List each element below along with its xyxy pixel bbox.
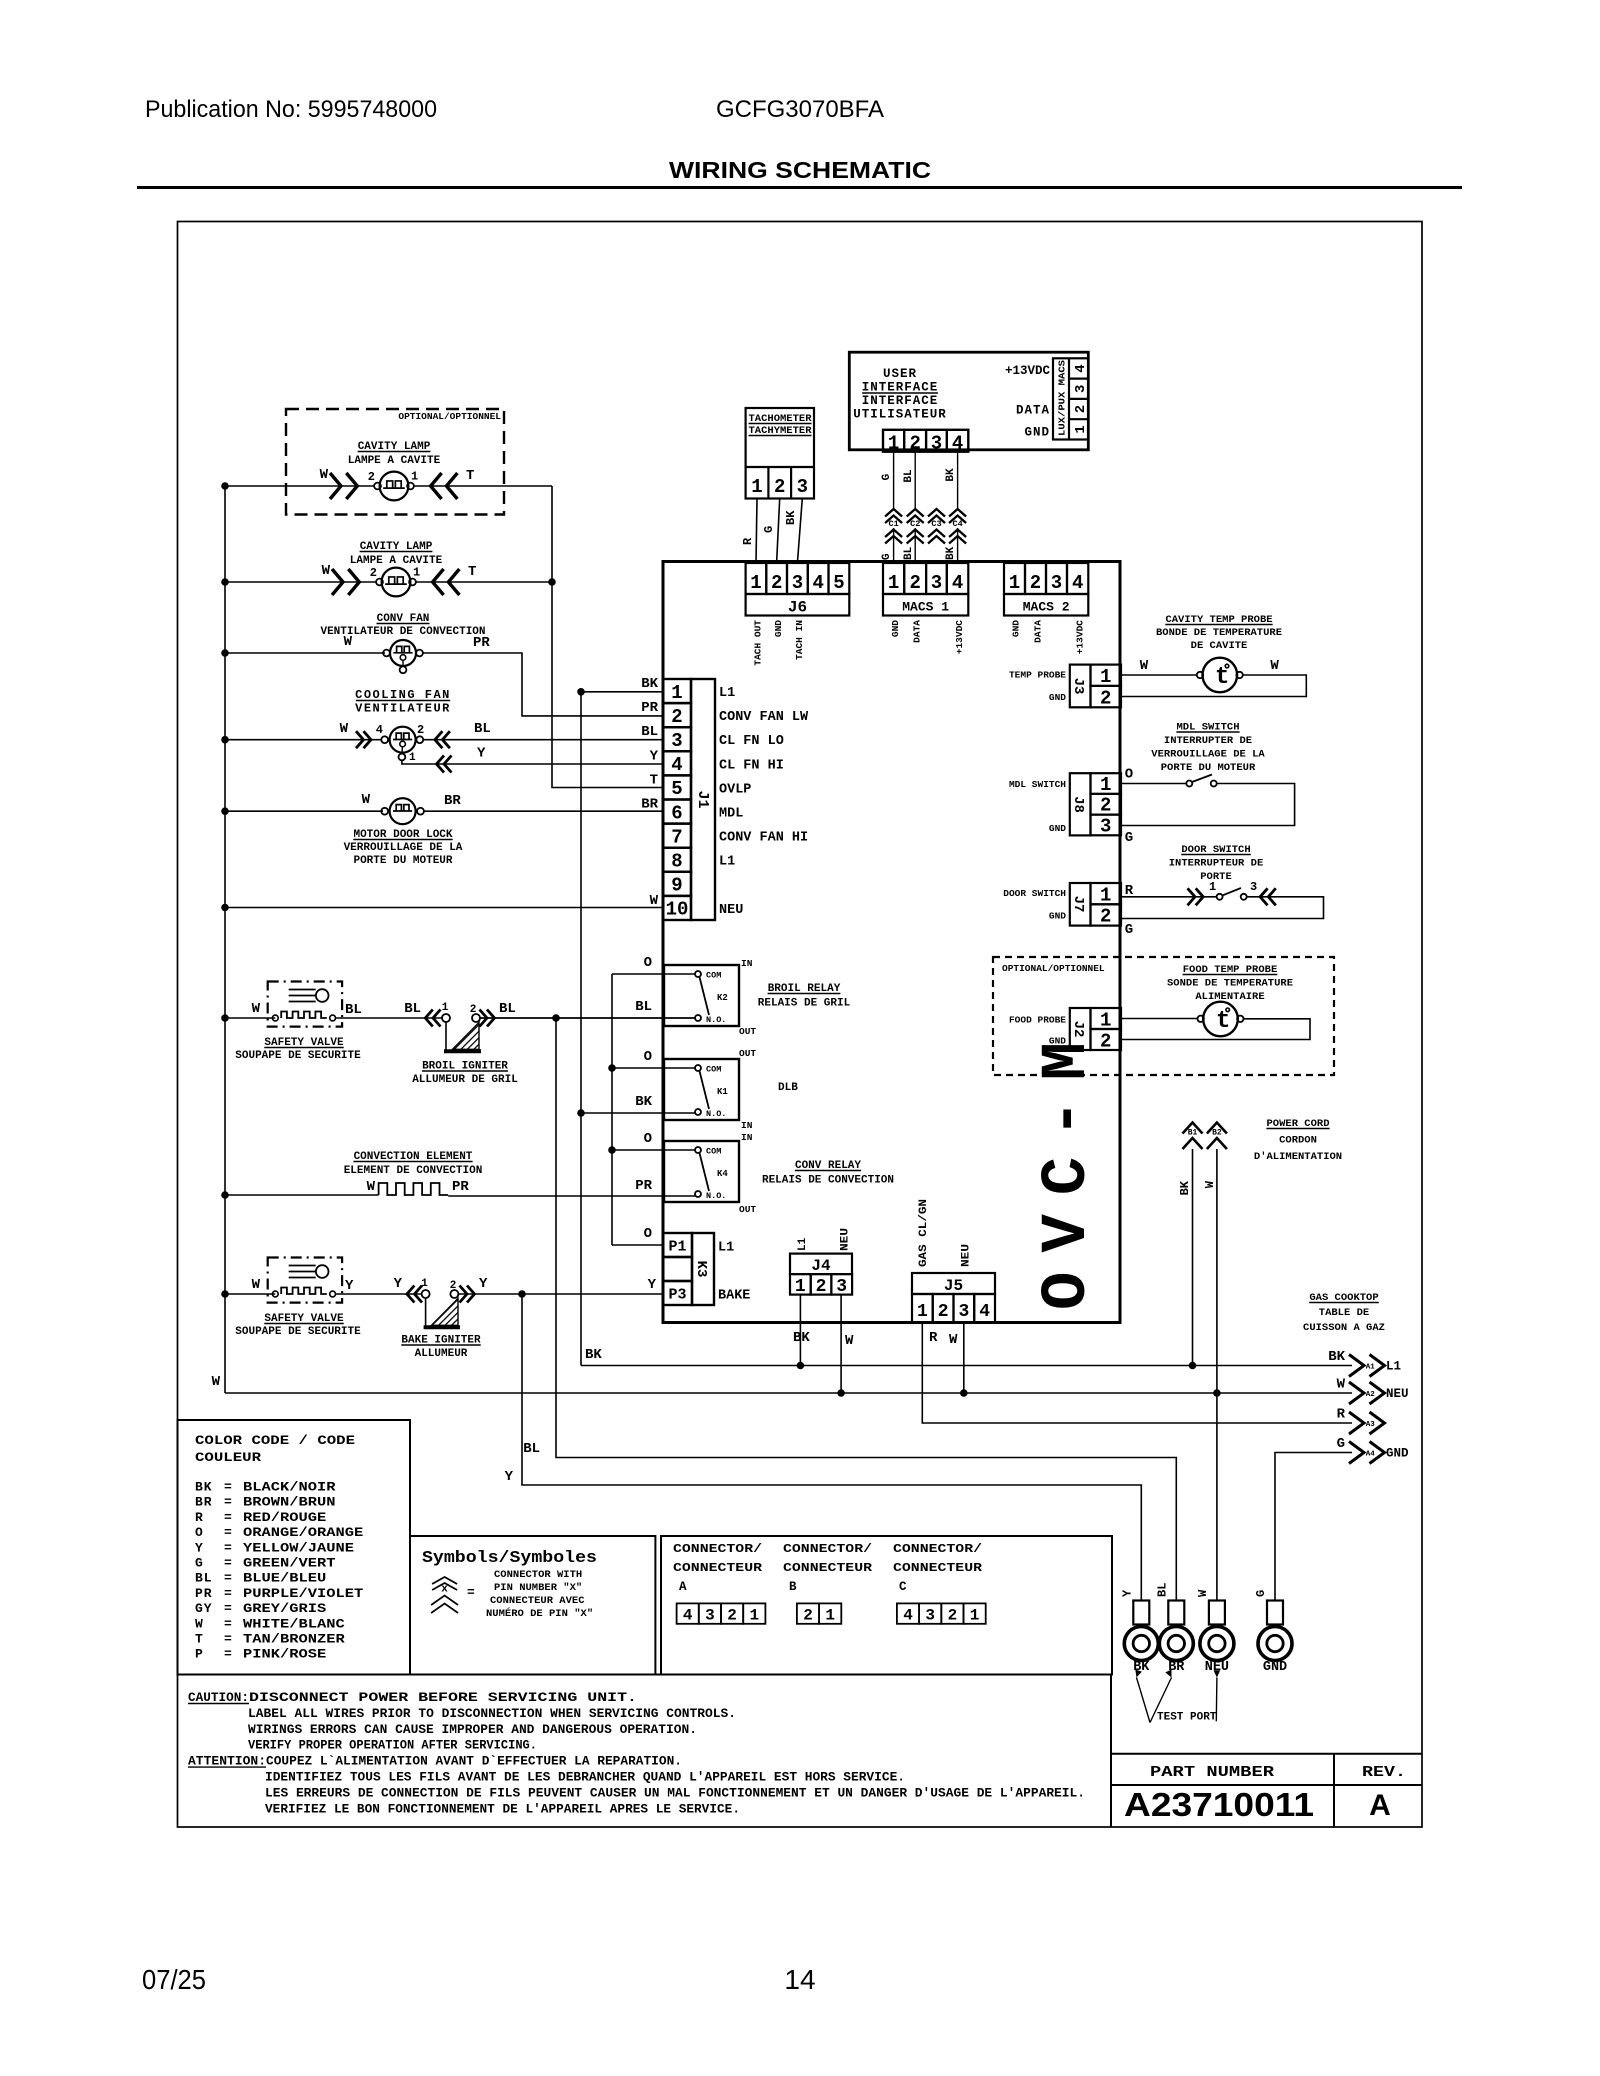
MACS 2 pin 4 — [1067, 563, 1088, 594]
wire Y drop from bake circuit to BK ring terminal — [522, 1294, 1141, 1601]
svg-text:N.O.: N.O. — [706, 1015, 726, 1025]
svg-text:DATA: DATA — [912, 620, 923, 643]
svg-text:BR: BR — [444, 793, 461, 809]
J5 pin 1 — [912, 1294, 933, 1323]
cooling fan motor symbol — [390, 727, 416, 753]
svg-text:INTERRUPTEUR DE: INTERRUPTEUR DE — [1169, 858, 1264, 870]
svg-text:PORTE DU MOTEUR: PORTE DU MOTEUR — [353, 855, 452, 867]
svg-text:3: 3 — [1250, 880, 1257, 894]
broil igniter chevrons right — [480, 1010, 488, 1027]
svg-text:INTERRUPTER DE: INTERRUPTER DE — [1164, 735, 1252, 747]
svg-text:RELAIS DE CONVECTION: RELAIS DE CONVECTION — [762, 1175, 894, 1187]
wire BK bus to K1 N.O. — [581, 1112, 695, 1114]
J1 pin 9 cell — [663, 872, 691, 896]
svg-text:DOOR SWITCH: DOOR SWITCH — [1003, 888, 1066, 899]
svg-text:1: 1 — [1073, 425, 1089, 433]
J1 pin 3 cell — [663, 727, 691, 751]
svg-text:Symbols/Symboles: Symbols/Symboles — [422, 1548, 597, 1567]
broil igniter E2 — [425, 1010, 433, 1027]
wire C2 to MACS1 pin2 — [914, 528, 916, 563]
svg-text:10: 10 — [666, 899, 689, 921]
svg-text:GND: GND — [1386, 1447, 1409, 1461]
MACS 1 pin 1 — [883, 563, 904, 594]
convection element symbol — [379, 1183, 449, 1195]
svg-text:COUPEZ L`ALIMENTATION AVANT D`: COUPEZ L`ALIMENTATION AVANT D`EFFECTUER … — [266, 1754, 682, 1769]
bake igniter E1 — [407, 1286, 415, 1303]
svg-text:=: = — [224, 1495, 232, 1510]
svg-text:T: T — [468, 564, 476, 580]
svg-text:Y: Y — [477, 746, 486, 762]
svg-text:REV.: REV. — [1362, 1764, 1406, 1781]
wire W bus to safety valve 1 — [225, 1017, 275, 1019]
svg-text:R: R — [195, 1510, 204, 1525]
title rule — [137, 186, 1462, 189]
wire O bus to K1 COM — [612, 1067, 695, 1069]
svg-text:DLB: DLB — [778, 1082, 798, 1094]
svg-text:CONV FAN LW: CONV FAN LW — [719, 710, 809, 725]
svg-text:4: 4 — [671, 754, 682, 776]
svg-text:OVLP: OVLP — [719, 782, 751, 797]
svg-text:A4: A4 — [1366, 1450, 1376, 1458]
wire food probe return to J2 pin2 — [1121, 1019, 1310, 1040]
svg-text:Y: Y — [505, 1469, 514, 1485]
svg-text:W: W — [650, 893, 659, 909]
svg-text:W: W — [362, 792, 371, 808]
J1 pin 5 cell — [663, 775, 691, 799]
svg-text:=: = — [467, 1585, 475, 1600]
svg-text:2: 2 — [938, 1302, 949, 1322]
door switch chevrons left — [1188, 888, 1196, 905]
junction W bus / cooling fan — [221, 736, 229, 744]
junction W bus / optional lamp — [221, 482, 229, 490]
connector chevrons on optional lamp T side — [431, 473, 442, 499]
svg-text:1: 1 — [421, 1278, 428, 1290]
svg-text:BL: BL — [404, 1001, 421, 1017]
svg-text:Y: Y — [195, 1540, 204, 1555]
svg-text:1: 1 — [751, 476, 762, 498]
MACS 2 pin 2 — [1025, 563, 1046, 594]
svg-text:1: 1 — [671, 682, 682, 704]
svg-text:GND: GND — [890, 620, 901, 637]
wire UI pin2 BL to connector C2 — [914, 452, 916, 509]
connector J8 — [1070, 773, 1091, 835]
svg-text:=: = — [224, 1647, 232, 1662]
svg-text:CONNECTOR/: CONNECTOR/ — [673, 1542, 762, 1556]
connector J7 — [1070, 883, 1091, 926]
svg-text:K2: K2 — [717, 993, 728, 1003]
relay K3 bake element block — [663, 1233, 692, 1257]
wire O bus to K2 COM — [612, 973, 695, 975]
connector table pin 2 — [941, 1603, 963, 1623]
svg-text:Y: Y — [394, 1276, 403, 1292]
user interface box — [849, 352, 1088, 450]
drawing outer border — [178, 222, 1423, 1828]
svg-text:PR: PR — [641, 700, 658, 716]
svg-text:W: W — [1270, 658, 1279, 674]
svg-text:4: 4 — [376, 723, 383, 737]
svg-text:2: 2 — [370, 566, 377, 580]
optional lamp symbol — [380, 472, 409, 501]
wire door lock BR to J1 pin 6 — [424, 810, 663, 812]
svg-text:B: B — [789, 1580, 797, 1594]
ring terminal BR — [1168, 1601, 1184, 1625]
wire W bus to cavity lamp 2 — [225, 581, 376, 583]
junction O bus / K1 — [608, 1064, 616, 1072]
wire conv fan PR to J1 pin 2 — [423, 653, 663, 716]
svg-text:TAN/BRONZER: TAN/BRONZER — [243, 1632, 345, 1647]
svg-text:P: P — [195, 1647, 204, 1662]
svg-text:3: 3 — [931, 572, 942, 594]
svg-text:DATA: DATA — [1016, 404, 1050, 418]
svg-text:2: 2 — [1030, 572, 1041, 594]
svg-text:LAMPE A CAVITE: LAMPE A CAVITE — [350, 555, 443, 567]
ring terminal NEU — [1209, 1601, 1225, 1625]
svg-text:BK: BK — [635, 1094, 652, 1110]
junction BL drop / broil wire — [552, 1014, 560, 1022]
svg-text:ORANGE/ORANGE: ORANGE/ORANGE — [243, 1525, 363, 1540]
svg-text:CORDON: CORDON — [1279, 1135, 1317, 1147]
tachometer assembly — [746, 408, 814, 499]
wire BK line to gas cooktop A1 — [581, 1365, 1352, 1367]
svg-text:9: 9 — [671, 875, 682, 897]
svg-text:GAS CL/GN: GAS CL/GN — [918, 1199, 930, 1267]
svg-text:RED/ROUGE: RED/ROUGE — [243, 1510, 326, 1525]
svg-text:G: G — [1254, 1590, 1268, 1597]
svg-text:NEU: NEU — [719, 903, 743, 918]
svg-text:NEU: NEU — [840, 1228, 852, 1251]
wire W bus to cooling fan — [225, 739, 381, 741]
svg-text:3: 3 — [671, 730, 682, 752]
svg-text:PIN NUMBER "X": PIN NUMBER "X" — [494, 1582, 582, 1594]
svg-text:=: = — [224, 1571, 232, 1586]
wire W bus to convection element — [225, 1194, 379, 1196]
svg-text:TEMP PROBE: TEMP PROBE — [1009, 670, 1066, 681]
relay K4 conv relay — [664, 1141, 739, 1202]
connector C2 — [907, 509, 924, 517]
wire W bus to conv fan — [225, 652, 385, 654]
wire J5 pin3 W drop — [963, 1323, 965, 1394]
svg-text:OUT: OUT — [739, 1204, 756, 1215]
svg-text:LABEL ALL WIRES PRIOR TO DISCO: LABEL ALL WIRES PRIOR TO DISCONNECTION W… — [248, 1706, 736, 1721]
svg-text:3: 3 — [931, 433, 942, 455]
svg-text:SOUPAPE DE SECURITE: SOUPAPE DE SECURITE — [235, 1050, 361, 1062]
svg-text:BL: BL — [523, 1441, 540, 1457]
svg-text:BL: BL — [903, 546, 915, 560]
wire BL broil to K2 N.O. — [480, 1017, 695, 1019]
svg-text:J7: J7 — [1070, 896, 1086, 913]
svg-text:ELEMENT DE CONVECTION: ELEMENT DE CONVECTION — [344, 1165, 483, 1177]
svg-text:4: 4 — [1073, 364, 1089, 372]
junction Y drop / bake wire — [518, 1290, 526, 1298]
svg-text:N.O.: N.O. — [706, 1191, 726, 1201]
svg-text:1: 1 — [888, 433, 899, 455]
LUX/PUX MACS pin 3 — [1069, 378, 1088, 380]
connector table pin 3 — [919, 1603, 941, 1623]
svg-text:J1: J1 — [694, 790, 711, 808]
svg-text:J8: J8 — [1070, 796, 1086, 813]
wire tachometer pin2 G to J6 pin2 — [777, 499, 780, 564]
svg-text:ALLUMEUR DE GRIL: ALLUMEUR DE GRIL — [412, 1074, 518, 1086]
MACS 1 pin 2 — [904, 563, 926, 594]
connector table pin 1 — [819, 1603, 841, 1623]
wire O bus vertical — [611, 974, 613, 1245]
wire T bus to J1 pin 5 — [552, 486, 663, 788]
J6 pin 5 — [829, 563, 850, 594]
svg-text:PORTE DU MOTEUR: PORTE DU MOTEUR — [1161, 762, 1256, 774]
junction B1 / BK line — [1189, 1362, 1197, 1370]
legend connector symbol with pin number x — [432, 1577, 457, 1584]
svg-text:O: O — [1125, 767, 1133, 783]
svg-text:ATTENTION:: ATTENTION: — [188, 1754, 266, 1769]
svg-text:O: O — [644, 1131, 652, 1147]
svg-text:SOUPAPE DE SECURITE: SOUPAPE DE SECURITE — [235, 1326, 361, 1338]
svg-text:L1: L1 — [1386, 1360, 1401, 1374]
svg-text:C3: C3 — [931, 519, 941, 529]
svg-text:=: = — [224, 1525, 232, 1540]
svg-text:ALLUMEUR: ALLUMEUR — [415, 1348, 468, 1360]
svg-text:1: 1 — [1100, 666, 1111, 688]
LUX/PUX MACS connector on user interface — [1053, 358, 1088, 439]
svg-text:VERROUILLAGE DE LA: VERROUILLAGE DE LA — [344, 842, 463, 854]
svg-text:W: W — [252, 1277, 261, 1293]
svg-text:3: 3 — [1100, 815, 1111, 837]
svg-text:K1: K1 — [717, 1087, 728, 1097]
connector table pin 4 — [897, 1603, 919, 1623]
svg-text:T: T — [650, 772, 658, 788]
wire UI pin1 G to connector C1 — [893, 452, 895, 509]
svg-text:CONNECTOR/: CONNECTOR/ — [783, 1542, 872, 1556]
svg-text:GREY/GRIS: GREY/GRIS — [243, 1601, 326, 1616]
svg-text:LUX/PUX MACS: LUX/PUX MACS — [1057, 360, 1068, 436]
svg-text:1: 1 — [1100, 884, 1111, 906]
svg-text:W: W — [845, 1333, 854, 1349]
svg-text:IN: IN — [741, 1132, 753, 1143]
wire cavity probe return to J3 pin2 — [1121, 675, 1306, 697]
svg-text:VERIFIEZ LE BON FONCTIONNEMENT: VERIFIEZ LE BON FONCTIONNEMENT DE L'APPA… — [265, 1801, 740, 1816]
wire G from A4 to GND ring terminal — [1275, 1453, 1352, 1602]
svg-text:COM: COM — [706, 1147, 721, 1157]
svg-text:TEST PORT: TEST PORT — [1157, 1712, 1217, 1724]
svg-text:T: T — [466, 468, 474, 484]
svg-text:G: G — [881, 553, 893, 560]
power cord connector B1 — [1183, 1123, 1203, 1134]
svg-text:=: = — [224, 1510, 232, 1525]
wire cavity lamp 2 to T bus — [416, 581, 552, 583]
svg-text:BK: BK — [1178, 1180, 1192, 1195]
svg-text:VENTILATEUR: VENTILATEUR — [355, 702, 451, 716]
svg-text:A1: A1 — [1366, 1363, 1376, 1371]
connector C1 — [885, 509, 902, 517]
svg-text:L1: L1 — [719, 686, 735, 701]
svg-text:=: = — [224, 1556, 232, 1571]
svg-text:GREEN/VERT: GREEN/VERT — [243, 1556, 336, 1571]
svg-text:L1: L1 — [797, 1237, 809, 1251]
svg-text:PART NUMBER: PART NUMBER — [1150, 1764, 1274, 1781]
svg-text:N.O.: N.O. — [706, 1109, 726, 1119]
svg-text:BL: BL — [1155, 1583, 1169, 1597]
connector table pin 3 — [699, 1603, 721, 1623]
svg-text:BK: BK — [195, 1480, 212, 1495]
MACS 1 pin 3 — [926, 563, 947, 594]
svg-text:P1: P1 — [668, 1239, 686, 1256]
wire safety valve 2 to bake igniter — [336, 1293, 422, 1295]
wire W to optional cavity lamp — [225, 485, 374, 487]
svg-text:R: R — [929, 1330, 938, 1346]
svg-text:CONNECTEUR AVEC: CONNECTEUR AVEC — [490, 1595, 585, 1607]
svg-text:C1: C1 — [888, 519, 898, 529]
junction O bus / K4 — [608, 1146, 616, 1154]
svg-text:OPTIONAL/OPTIONNEL: OPTIONAL/OPTIONNEL — [398, 411, 501, 422]
svg-text:NUMÉRO DE PIN "X": NUMÉRO DE PIN "X" — [486, 1606, 593, 1620]
svg-text:DE CAVITE: DE CAVITE — [1191, 640, 1248, 652]
svg-text:GND: GND — [1024, 426, 1050, 440]
svg-text:R: R — [1337, 1407, 1346, 1423]
svg-text:W: W — [1140, 658, 1149, 674]
wire J5 pin1 R drop — [922, 1323, 1352, 1424]
svg-text:W: W — [252, 1001, 261, 1017]
svg-text:1: 1 — [749, 1607, 759, 1625]
svg-text:2: 2 — [1073, 405, 1089, 413]
svg-text:PINK/ROSE: PINK/ROSE — [243, 1647, 326, 1662]
optional box around cavity lamp — [286, 409, 504, 515]
svg-text:R: R — [741, 537, 755, 545]
svg-text:2: 2 — [816, 1277, 827, 1297]
svg-text:J5: J5 — [944, 1277, 963, 1295]
connector chevrons cavity lamp 2 T side — [433, 569, 444, 595]
broil igniter element — [445, 1022, 447, 1050]
svg-text:BK: BK — [945, 546, 957, 560]
connector C3 — [928, 509, 945, 517]
svg-text:CONNECTOR/: CONNECTOR/ — [893, 1542, 982, 1556]
relay K2 broil relay — [664, 965, 739, 1026]
svg-text:BL: BL — [903, 469, 915, 483]
wire BL drop from broil circuit to BR ring terminal — [556, 1018, 1176, 1601]
svg-text:3: 3 — [1073, 385, 1089, 393]
svg-text:1: 1 — [795, 1277, 806, 1297]
svg-text:G: G — [1125, 922, 1133, 938]
svg-text:W: W — [195, 1616, 204, 1631]
svg-text:Y: Y — [479, 1276, 488, 1292]
connector chevrons on optional lamp W side — [330, 473, 341, 499]
svg-text:5: 5 — [833, 572, 844, 594]
junction J4 BK / BK line — [797, 1362, 805, 1370]
svg-text:3: 3 — [925, 1607, 935, 1625]
svg-text:GND: GND — [1011, 620, 1022, 637]
svg-text:GND: GND — [1049, 823, 1066, 834]
svg-text:O: O — [644, 1226, 652, 1242]
J1 pin 1 cell — [663, 679, 691, 703]
svg-text:2: 2 — [1100, 687, 1111, 709]
svg-text:COULEUR: COULEUR — [195, 1450, 261, 1465]
svg-text:3: 3 — [1051, 572, 1062, 594]
svg-text:CONNECTEUR: CONNECTEUR — [783, 1561, 873, 1575]
svg-text:NEU: NEU — [1386, 1387, 1409, 1401]
ring terminal GND — [1267, 1601, 1283, 1625]
svg-text:J3: J3 — [1070, 678, 1086, 695]
svg-text:2: 2 — [1100, 795, 1111, 817]
svg-text:ALIMENTAIRE: ALIMENTAIRE — [1195, 991, 1264, 1003]
J5 pin 4 — [974, 1294, 995, 1323]
bake igniter chevrons right — [460, 1286, 468, 1303]
svg-text:2: 2 — [909, 572, 920, 594]
svg-text:VERIFY PROPER OPERATION AFTER: VERIFY PROPER OPERATION AFTER SERVICING. — [248, 1738, 537, 1753]
svg-text:GND: GND — [773, 620, 784, 637]
svg-text:O: O — [644, 955, 652, 971]
svg-text:PR: PR — [635, 1178, 652, 1194]
svg-text:Y: Y — [648, 1277, 657, 1293]
J6 pin 4 — [808, 563, 829, 594]
svg-text:MACS 2: MACS 2 — [1023, 600, 1070, 615]
svg-text:CAUTION:: CAUTION: — [188, 1690, 249, 1705]
junction BK bus / K1 — [577, 1109, 585, 1117]
svg-text:J2: J2 — [1070, 1021, 1086, 1038]
svg-text:8: 8 — [671, 851, 682, 873]
svg-text:BK: BK — [585, 1347, 602, 1363]
wire door switch return to J7 pin2 — [1121, 897, 1324, 919]
svg-text:O: O — [195, 1525, 204, 1540]
svg-text:IN: IN — [741, 958, 753, 969]
wire tachometer pin1 R to J6 pin1 — [756, 499, 757, 564]
svg-text:3: 3 — [836, 1277, 847, 1297]
wire B1 BK to BK line — [1192, 1149, 1194, 1366]
svg-text:=: = — [224, 1540, 232, 1555]
svg-text:2: 2 — [1100, 906, 1111, 928]
svg-text:W: W — [1196, 1589, 1210, 1597]
svg-text:C2: C2 — [910, 519, 920, 529]
wire UI pin4 BK to connector C4 — [957, 452, 959, 509]
svg-text:DISCONNECT POWER BEFORE SERVIC: DISCONNECT POWER BEFORE SERVICING UNIT. — [249, 1690, 637, 1705]
svg-text:A23710011: A23710011 — [1124, 1786, 1314, 1823]
svg-text:L1: L1 — [718, 1241, 734, 1256]
svg-text:GND: GND — [1049, 692, 1066, 703]
door switch chevrons right — [1260, 888, 1268, 905]
svg-text:GND: GND — [1263, 1660, 1287, 1675]
svg-text:BONDE DE TEMPERATURE: BONDE DE TEMPERATURE — [1156, 627, 1282, 639]
svg-text:BR: BR — [195, 1495, 212, 1510]
svg-text:2: 2 — [771, 572, 782, 594]
svg-text:+13VDC: +13VDC — [1075, 620, 1086, 655]
svg-text:Y: Y — [345, 1278, 354, 1294]
svg-text:W: W — [344, 634, 353, 650]
svg-text:G: G — [762, 526, 776, 533]
wire J2 pin1 to food probe — [1121, 1018, 1197, 1020]
svg-text:T: T — [195, 1632, 204, 1647]
junction W bus / safety valve 1 — [221, 1014, 229, 1022]
svg-text:CONNECTEUR: CONNECTEUR — [893, 1561, 983, 1575]
svg-text:=: = — [224, 1601, 232, 1616]
svg-text:WHITE/BLANC: WHITE/BLANC — [243, 1616, 345, 1631]
wire W bus to safety valve 2 — [225, 1293, 275, 1295]
LUX/PUX MACS pin 2 — [1069, 398, 1088, 400]
J1 pin 2 cell — [663, 703, 691, 727]
svg-text:W: W — [340, 721, 349, 737]
svg-text:USER: USER — [883, 367, 917, 381]
svg-text:GY: GY — [195, 1601, 212, 1616]
relay K1 DLB — [664, 1059, 739, 1120]
svg-text:W: W — [949, 1332, 958, 1348]
svg-text:C4: C4 — [952, 519, 962, 529]
junction J4 W / W line — [837, 1389, 845, 1397]
wire J4 pin3 W drop — [840, 1295, 842, 1393]
J1 pin 7 cell — [663, 824, 691, 848]
wire B2 W to W line and NEU ring terminal — [1216, 1149, 1218, 1601]
svg-text:=: = — [224, 1632, 232, 1647]
junction J5 W / W line — [960, 1389, 968, 1397]
svg-text:BK: BK — [784, 510, 798, 525]
svg-text:BK: BK — [641, 676, 658, 692]
connector J3 — [1070, 665, 1091, 708]
J1 pin 10 cell — [663, 896, 691, 920]
